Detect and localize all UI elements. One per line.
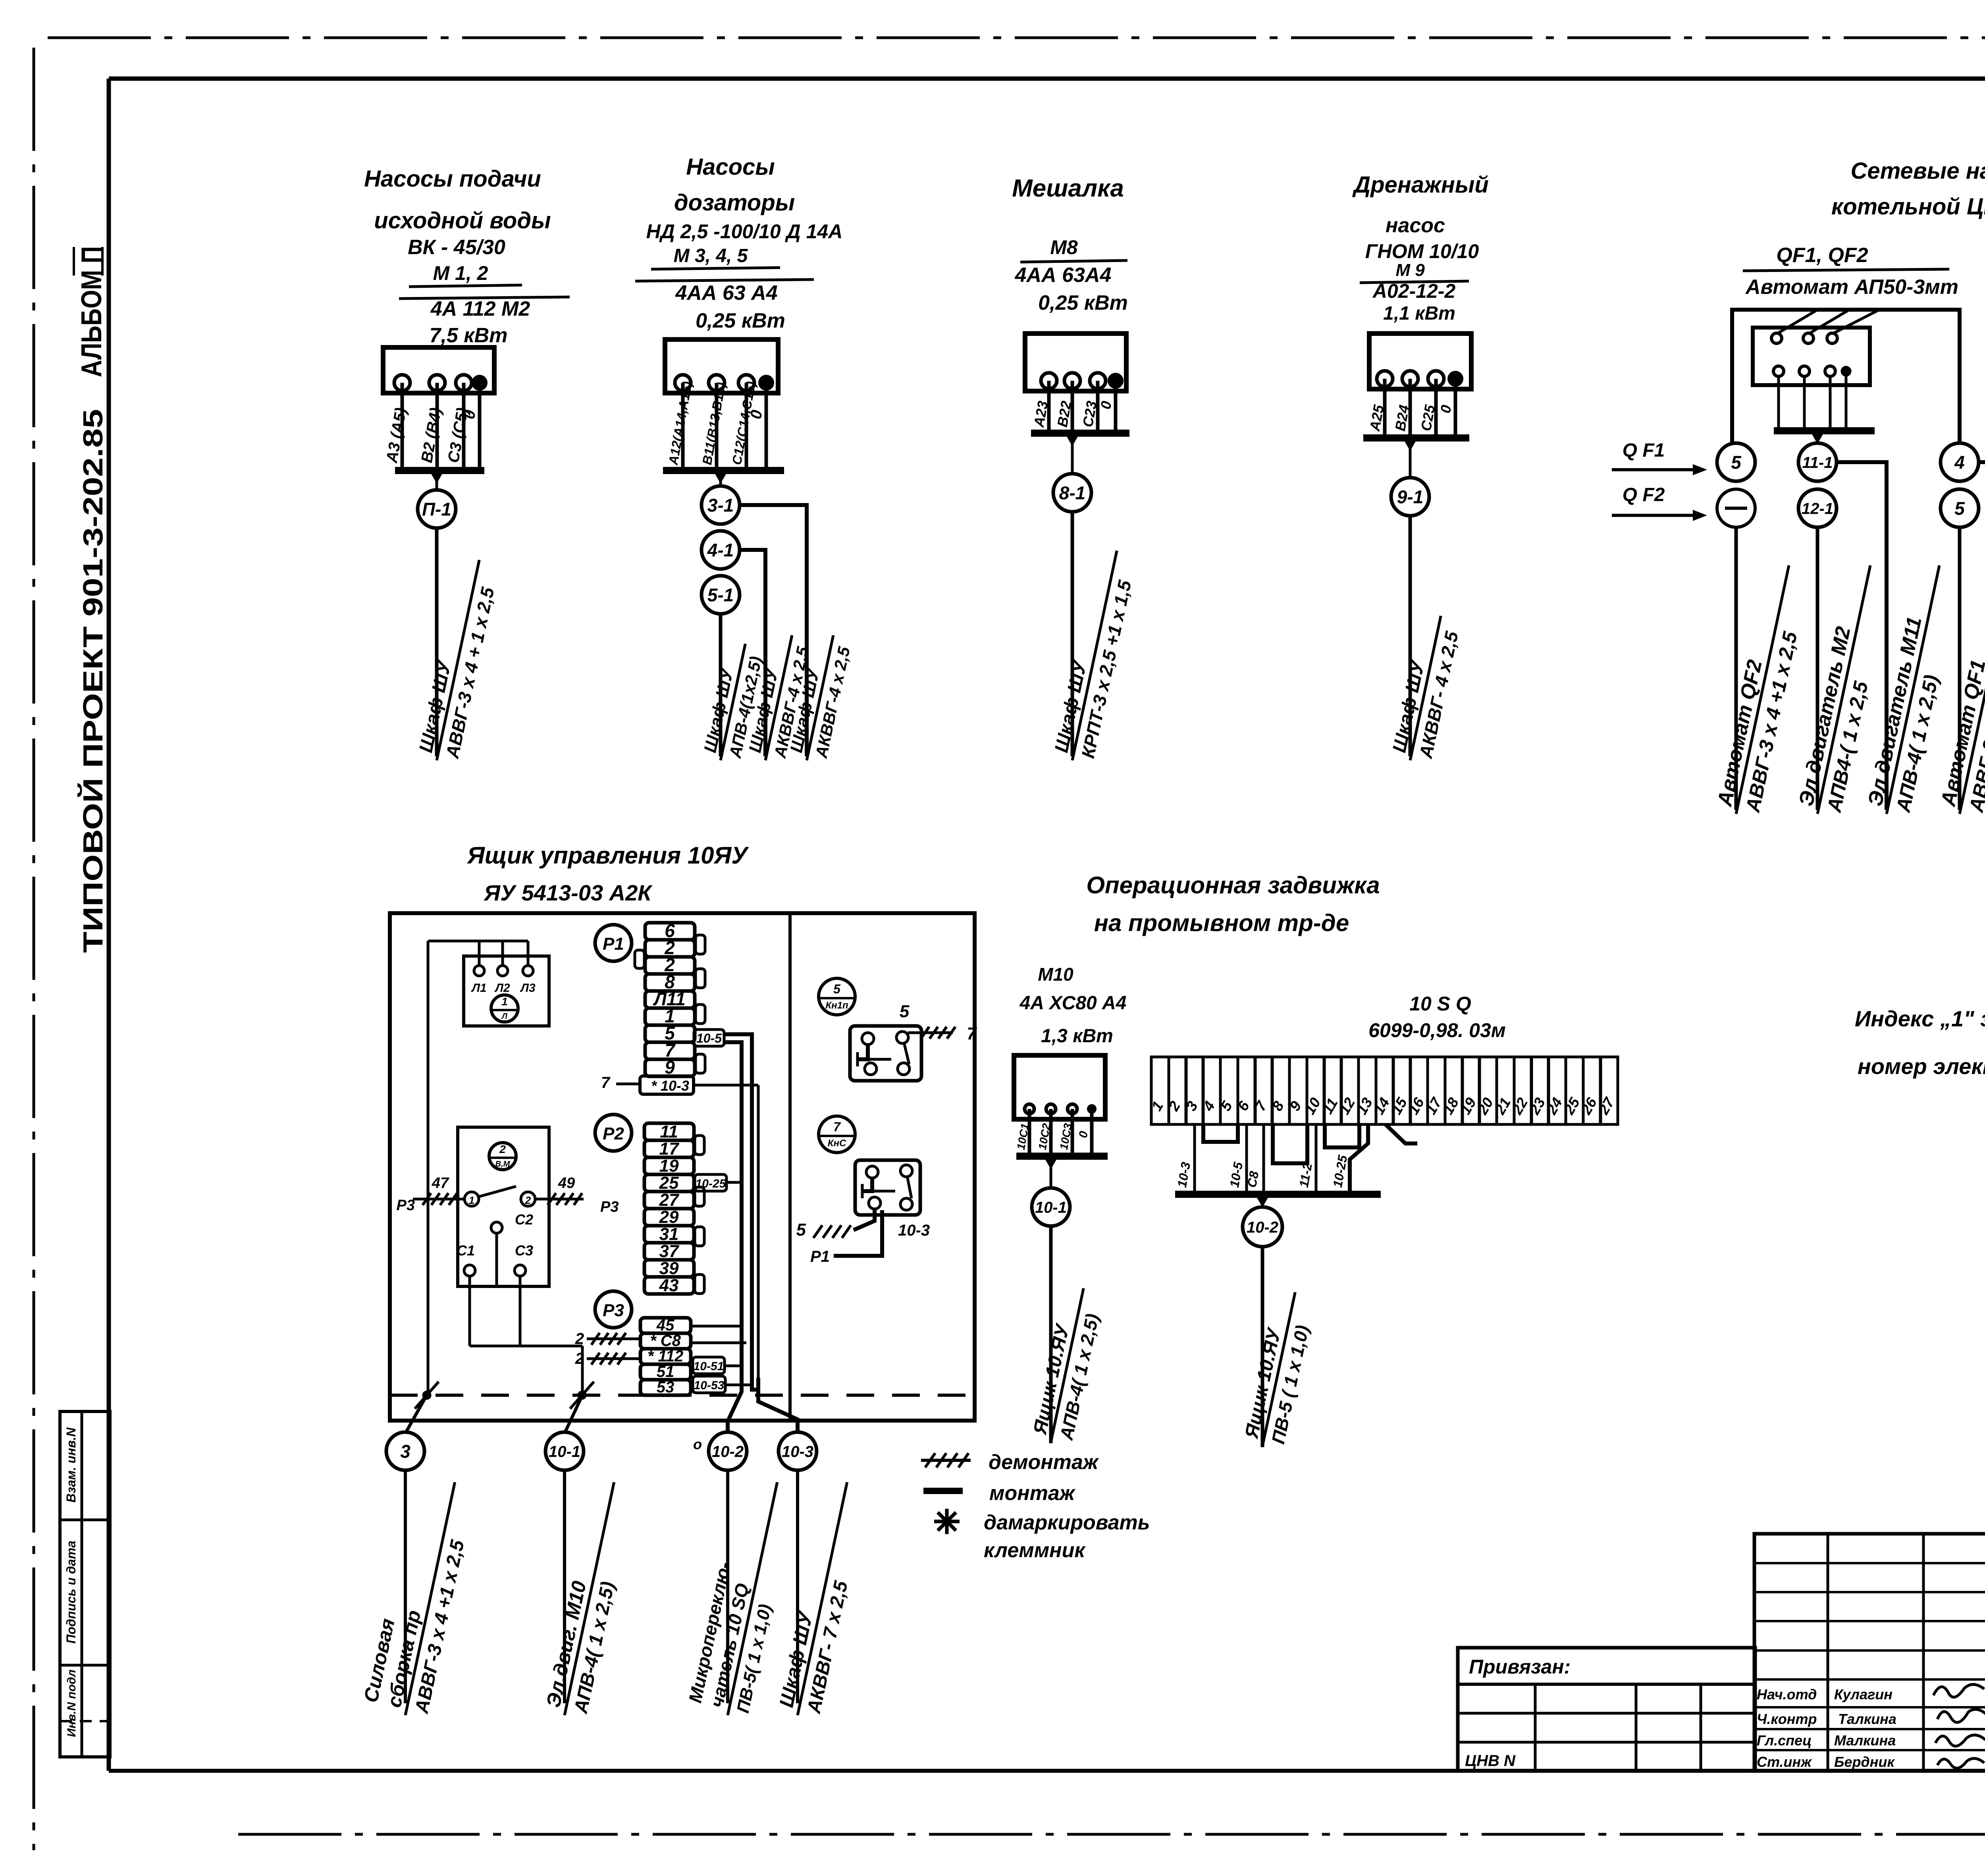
left margin vertical stamp: АЛЬБОМ II (76, 246, 108, 377)
relay P1 (595, 925, 632, 961)
svg-text:ЦНВ N: ЦНВ N (1465, 1752, 1516, 1770)
svg-text:7: 7 (601, 1074, 611, 1091)
motor M9 terminal box (1369, 334, 1471, 389)
breaker QF1/QF2 box (1753, 328, 1870, 385)
cable markers 11-1 / 12-1 (1798, 443, 1837, 481)
svg-text:10-25: 10-25 (696, 1177, 727, 1190)
pushbutton 7/КнС (819, 1116, 855, 1153)
svg-text:6099-0,98. 03м: 6099-0,98. 03м (1368, 1019, 1506, 1041)
svg-text:Насосы подачи: Насосы подачи (364, 166, 541, 192)
svg-text:клеммник: клеммник (984, 1539, 1086, 1562)
relay P2 (595, 1114, 632, 1151)
svg-text:5: 5 (1731, 452, 1742, 473)
bus bar M1,2 (395, 467, 484, 474)
svg-text:43: 43 (659, 1276, 679, 1295)
svg-text:В,М: В,М (495, 1160, 511, 1168)
svg-text:1: 1 (469, 1194, 474, 1206)
cable marker П-1 (436, 470, 438, 490)
left margin vertical stamp: ТИПОВОЙ ПРОЕКТ 901-3-202.85 (77, 409, 108, 953)
svg-text:* 112: * 112 (648, 1348, 683, 1365)
bus bar M3,4,5 (663, 467, 784, 474)
outer cut border dash-dot (48, 37, 1985, 39)
svg-text:0: 0 (1437, 404, 1455, 415)
svg-text:Операционная задвижка: Операционная задвижка (1086, 872, 1380, 898)
svg-text:П-1: П-1 (422, 499, 451, 520)
svg-text:демонтаж: демонтаж (989, 1451, 1099, 1474)
legend демонтаж (921, 1459, 971, 1462)
svg-text:Индекс „1" заменить на соотв: Индекс „1" заменить на соответствующий (1855, 1006, 1985, 1031)
cable marker 8-1 (1071, 433, 1074, 474)
svg-text:дозаторы: дозаторы (674, 190, 795, 216)
cable label Автомат QF2 АВВГ-3х4+1х2,5 (1712, 560, 1815, 819)
phase labels A12(A14,A16) B11(B13,B15) C12(C14,C16) 0 (665, 380, 695, 467)
svg-text:Л1: Л1 (471, 981, 486, 995)
svg-text:27: 27 (1595, 1094, 1618, 1118)
svg-text:Ящик управления 10ЯУ: Ящик управления 10ЯУ (466, 842, 749, 869)
svg-text:10-2: 10-2 (1247, 1219, 1278, 1236)
bus bar M8 (1031, 430, 1129, 437)
svg-text:Талкина: Талкина (1838, 1711, 1896, 1727)
exit circle 10-2 (709, 1432, 747, 1470)
svg-text:С2: С2 (515, 1211, 533, 1228)
svg-text:0,25 кВт: 0,25 кВт (696, 309, 785, 332)
svg-text:10-1: 10-1 (549, 1443, 580, 1460)
svg-text:1,1 кВт: 1,1 кВт (1383, 303, 1455, 324)
svg-text:Сетевые насосы: Сетевые насосы (1851, 158, 1985, 184)
svg-text:9-1: 9-1 (1397, 487, 1423, 507)
svg-text:монтаж: монтаж (989, 1482, 1076, 1505)
svg-text:4: 4 (1954, 452, 1965, 473)
svg-text:насос: насос (1386, 214, 1445, 237)
svg-text:2: 2 (525, 1194, 531, 1206)
svg-text:Гл.спец: Гл.спец (1757, 1732, 1812, 1749)
wire down (1261, 1247, 1264, 1447)
svg-text:КнС: КнС (828, 1138, 846, 1149)
svg-text:Подпись и дата: Подпись и дата (64, 1541, 78, 1643)
svg-text:49: 49 (558, 1175, 575, 1192)
svg-text:0: 0 (1097, 400, 1115, 411)
svg-text:Q F1: Q F1 (1623, 440, 1665, 461)
svg-text:Ст.инж: Ст.инж (1757, 1754, 1812, 1770)
cable marker 10-2 (1261, 1194, 1264, 1207)
svg-text:исходной воды: исходной воды (374, 208, 551, 233)
svg-text:С3: С3 (515, 1242, 533, 1259)
svg-text:10 S Q: 10 S Q (1409, 993, 1471, 1015)
svg-text:10-5: 10-5 (696, 1031, 722, 1045)
cell *10-3 (640, 1076, 694, 1094)
svg-text:М 9: М 9 (1395, 260, 1425, 280)
bus bar 10SQ (1175, 1191, 1381, 1198)
cable label Шкаф ШУ АКВВГ-7х2,5 (774, 1477, 872, 1720)
wire to cabinet (1409, 516, 1412, 756)
svg-text:Малкина: Малкина (1834, 1732, 1896, 1749)
wire from 3-1 (740, 505, 807, 756)
svg-text:номер электропривода: номер электропривода (1858, 1054, 1985, 1079)
main drawing frame (109, 77, 1985, 81)
wires below exits (404, 1470, 407, 1703)
svg-text:0,25 кВт: 0,25 кВт (1038, 291, 1128, 314)
svg-text:Бердник: Бердник (1834, 1754, 1895, 1770)
svg-text:дамаркировать: дамаркировать (984, 1511, 1150, 1534)
wires from M10 (1028, 1109, 1031, 1156)
svg-text:Насосы: Насосы (686, 154, 775, 180)
svg-text:С8: С8 (1245, 1170, 1262, 1189)
svg-text:Кулагин: Кулагин (1834, 1686, 1892, 1702)
svg-text:А02-12-2: А02-12-2 (1372, 280, 1456, 302)
svg-text:Л: Л (501, 1012, 508, 1021)
bus bar M9 (1363, 434, 1469, 442)
svg-text:Л2: Л2 (494, 981, 510, 995)
svg-text:Взам. инв.N: Взам. инв.N (64, 1427, 78, 1503)
left bottom side column box (60, 1411, 110, 1757)
tag 10-5 (694, 1030, 724, 1046)
QF top terminals (1771, 333, 1782, 343)
svg-text:Л3: Л3 (520, 981, 536, 995)
wires from M8 terminals (1047, 381, 1051, 433)
cable label Силовая сборка пр АВВГ-3х4+1х2,5 (358, 1472, 480, 1721)
tag 10-25 (695, 1174, 727, 1191)
svg-text:Ч.контр: Ч.контр (1757, 1711, 1817, 1727)
svg-text:М 3, 4, 5: М 3, 4, 5 (674, 245, 748, 266)
motor M3,4,5 terminal box (665, 339, 778, 393)
svg-text:5: 5 (833, 982, 841, 996)
svg-text:АКВВГ- 4 х 2,5: АКВВГ- 4 х 2,5 (1415, 629, 1462, 760)
wire to cabinet (1071, 512, 1074, 756)
motor M8 terminal box (1025, 334, 1126, 391)
svg-text:5: 5 (796, 1220, 806, 1240)
svg-text:о: о (693, 1436, 702, 1452)
phase labels 10C1 10C2 10C3 0 (1015, 1122, 1031, 1151)
terminal strip P2 (644, 1123, 694, 1140)
exit circle 10-1 (545, 1432, 584, 1470)
svg-text:10-3: 10-3 (898, 1222, 930, 1239)
svg-text:ТИПОВОЙ ПРОЕКТ 901-3-202.85: ТИПОВОЙ ПРОЕКТ 901-3-202.85 (77, 409, 108, 953)
legend демаркировать клеммник (934, 1520, 960, 1523)
signatures squiggles (1933, 1684, 1984, 1697)
svg-text:0: 0 (1077, 1130, 1091, 1139)
svg-text:АКВВГ- 7 х 2,5: АКВВГ- 7 х 2,5 (803, 1579, 852, 1716)
wire to cabinet (435, 528, 439, 756)
svg-text:11-2: 11-2 (1297, 1162, 1315, 1188)
svg-text:12-1: 12-1 (1802, 500, 1833, 517)
cable label Ящик 10ЯУ ПВ-5(1х1,0) (1240, 1288, 1319, 1451)
cable label Эл.двигатель М11 АПВ-4(1х2,5) (1862, 560, 1965, 819)
motor M10 terminal box (1014, 1055, 1105, 1119)
svg-text:4-1: 4-1 (707, 540, 734, 561)
svg-text:Автомат АП50-3мт: Автомат АП50-3мт (1745, 276, 1958, 299)
svg-text:Нач.отд: Нач.отд (1757, 1686, 1817, 1702)
svg-text:10-25: 10-25 (1330, 1154, 1350, 1189)
svg-text:7: 7 (967, 1024, 977, 1043)
strip P2 side tabs (695, 1136, 704, 1155)
contact box Кн1п (850, 1026, 921, 1081)
meter unit 2/В,М box (458, 1127, 549, 1286)
lamp unit Л1 Л2 Л3 box (464, 956, 549, 1026)
inner divider (788, 913, 792, 1421)
internal dash line (390, 1394, 975, 1397)
title block: Привязан table (1458, 1648, 1755, 1771)
tag 10-53 (693, 1376, 725, 1393)
QF bottom terminals (1773, 366, 1784, 376)
svg-text:2: 2 (575, 1350, 584, 1367)
svg-text:Р3: Р3 (603, 1301, 624, 1320)
wire down (1049, 1226, 1053, 1443)
svg-text:53: 53 (657, 1379, 675, 1396)
svg-text:Q F2: Q F2 (1623, 484, 1665, 505)
svg-text:котельной ЦВЦ 6,3-3,5: котельной ЦВЦ 6,3-3,5 (1831, 194, 1985, 220)
svg-text:М 1, 2: М 1, 2 (433, 262, 488, 284)
phase labels A3(A5) B2(B4) C3(C5) 0 (383, 406, 410, 465)
merge wires to 10-1 exit (470, 1345, 582, 1348)
diagonal taps to QF top terminals (1777, 310, 1816, 334)
wires down group5 (1734, 527, 1738, 810)
svg-text:10-1: 10-1 (1035, 1199, 1067, 1216)
feeder wire over QF (1732, 310, 1960, 443)
terminal strip 10SQ 1..27 (1151, 1057, 1169, 1124)
cable label Шкаф ШУ АКВВГ-4х2,5 (1388, 611, 1465, 765)
svg-text:Р3: Р3 (397, 1197, 415, 1214)
svg-text:10-5: 10-5 (1227, 1161, 1246, 1189)
wires from M1,2 terminals (401, 383, 404, 470)
terminal strip P3 (640, 1318, 691, 1333)
wire from КнС to 5 demontage and Р1 (854, 1209, 875, 1230)
svg-text:Привязан:: Привязан: (1469, 1656, 1571, 1678)
legend монтаж (923, 1488, 963, 1494)
svg-text:ЯУ 5413-03 А2К: ЯУ 5413-03 А2К (483, 880, 653, 905)
svg-text:3-1: 3-1 (707, 495, 734, 516)
cable marker 9-1 (1409, 438, 1412, 478)
10SQ jumpers and tap wires (1193, 1124, 1196, 1194)
svg-text:* С8: * С8 (650, 1332, 681, 1350)
svg-text:7: 7 (833, 1120, 841, 1134)
svg-text:10-3: 10-3 (782, 1443, 813, 1460)
svg-text:ГНОМ 10/10: ГНОМ 10/10 (1365, 240, 1479, 262)
svg-text:А3 (А5): А3 (А5) (383, 406, 410, 465)
cable marker 3-1 (719, 470, 722, 486)
svg-text:10-3: 10-3 (1175, 1161, 1193, 1189)
wires QF bottom to bus (1777, 376, 1780, 431)
bus bar QF (1774, 427, 1875, 434)
svg-text:4АА 63 А4: 4АА 63 А4 (675, 281, 777, 305)
svg-text:Мешалка: Мешалка (1012, 175, 1124, 202)
cable label Шкаф ШУ АКВВГ-4х2,5 (2) (785, 631, 856, 765)
svg-text:45: 45 (656, 1317, 675, 1334)
svg-text:1,3 кВт: 1,3 кВт (1041, 1026, 1113, 1047)
wire from 5-1 (719, 614, 723, 756)
svg-text:3: 3 (400, 1441, 410, 1462)
wires from M9 terminals (1383, 379, 1387, 438)
svg-text:5: 5 (900, 1002, 910, 1021)
contact box КнС (855, 1160, 920, 1215)
svg-text:10-51: 10-51 (694, 1360, 724, 1373)
svg-text:8-1: 8-1 (1059, 483, 1085, 503)
svg-text:5-1: 5-1 (707, 585, 734, 605)
svg-text:10-2: 10-2 (712, 1443, 744, 1460)
svg-text:НД 2,5 -100/10 Д 14А: НД 2,5 -100/10 Д 14А (646, 220, 843, 243)
wire from 4-1 (740, 550, 765, 756)
strip P1 side tabs (696, 935, 705, 954)
tag 10-51 (693, 1357, 725, 1374)
svg-text:QF1, QF2: QF1, QF2 (1776, 244, 1868, 267)
wires from 10-5 tag (723, 1034, 752, 1372)
svg-text:Р1: Р1 (810, 1248, 830, 1265)
cable label Шкаф ШУ АПВ-4(1х2,5) (699, 639, 767, 765)
svg-text:Дренажный: Дренажный (1352, 172, 1489, 198)
svg-text:4А 112 М2: 4А 112 М2 (430, 297, 530, 320)
svg-text:ВК - 45/30: ВК - 45/30 (408, 236, 505, 259)
svg-text:2: 2 (575, 1330, 584, 1348)
cable marker dash (1717, 489, 1755, 527)
cable label Автомат QF1 АВВГ-3х4+1х2,5 (1935, 560, 1985, 819)
svg-text:Р2: Р2 (603, 1124, 624, 1143)
cable marker 5-1 (701, 576, 740, 614)
cable marker 4-1 (701, 531, 740, 569)
svg-text:51: 51 (657, 1363, 675, 1380)
svg-text:М10: М10 (1038, 964, 1073, 985)
svg-text:5: 5 (1954, 498, 1965, 519)
terminal strip P1 (645, 923, 695, 940)
bundle to exits 10-2 10-3 (728, 1366, 742, 1432)
relay P3 (595, 1291, 632, 1328)
phase labels A25 B24 C25 0 (1366, 403, 1387, 433)
cable label Эл.двигатель М2 АПВ-4(1х2,5 (1793, 560, 1896, 819)
svg-text:М8: М8 (1050, 236, 1078, 258)
cable label Ящик 10ЯУ АПВ-4(1х2,5) (1028, 1284, 1108, 1447)
svg-text:Р1: Р1 (603, 934, 624, 954)
pushbutton 5/Кн1п (819, 978, 855, 1015)
wires from M3,4,5 terminals (681, 383, 685, 470)
cable label Шкаф ШУ АКВВГ-4х2,5 (744, 631, 814, 765)
svg-text:на промывном тр-де: на промывном тр-де (1094, 910, 1349, 936)
control box 10ЯУ outline (390, 913, 975, 1421)
title block: signatures strip (1754, 1534, 1985, 1771)
C2 terminal (491, 1222, 502, 1233)
cable label Шкаф ШУ АВВГ-3х4+1х2,5 (414, 555, 503, 765)
phase labels A23 B22 C23 0 (1031, 400, 1051, 429)
svg-text:Инв.N подл: Инв.N подл (65, 1670, 78, 1737)
bus bar M10 (1016, 1153, 1108, 1160)
svg-text:Р3: Р3 (600, 1199, 619, 1215)
svg-text:1: 1 (501, 995, 508, 1008)
cable label Микропереключатель 10SQ ПВ-5(1х1,0) (683, 1473, 800, 1720)
svg-text:С1: С1 (457, 1242, 475, 1259)
svg-text:4А ХС80 А4: 4А ХС80 А4 (1019, 993, 1127, 1014)
svg-text:2: 2 (499, 1143, 506, 1155)
svg-text:4АА 63А4: 4АА 63А4 (1015, 264, 1112, 287)
wire to 7 with demontage (908, 1032, 953, 1034)
exit wires through bottom (405, 1395, 427, 1433)
wires from lamp unit up and to left side (478, 941, 481, 966)
exit circle 10-3 (779, 1432, 817, 1470)
svg-text:7,5 кВт: 7,5 кВт (430, 324, 508, 347)
motor M1,2 terminal box (383, 347, 494, 393)
svg-text:Кн1п: Кн1п (825, 1000, 848, 1011)
cable marker 10-1 (1050, 1156, 1052, 1188)
exit break marks on dash line (422, 1391, 431, 1400)
wires strip P3 to bundle (691, 1325, 742, 1328)
svg-text:11-1: 11-1 (1802, 454, 1833, 471)
cable label Эл.двиг. М10 АПВ-4(1х2,5) (541, 1477, 639, 1720)
indicator circle 1/Л (491, 995, 518, 1022)
svg-text:10-53: 10-53 (694, 1379, 725, 1392)
svg-text:* 10-3: * 10-3 (651, 1078, 689, 1094)
cable marker 5 (QF2 side) (1717, 443, 1755, 481)
cable label Шкаф ШУ КРПТ-3х2,5+1х1,5 (1050, 546, 1141, 765)
svg-text:47: 47 (432, 1175, 449, 1192)
svg-text:В2 (В4): В2 (В4) (418, 406, 445, 464)
exit circle 3 (386, 1432, 424, 1470)
cable markers 4 / 5 (1941, 443, 1979, 481)
